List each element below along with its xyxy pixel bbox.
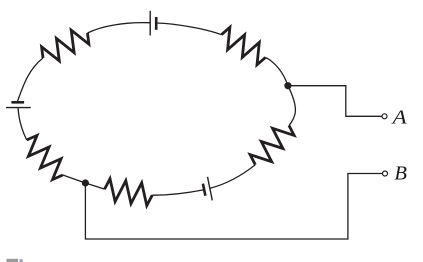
node B (junction dot) (82, 179, 89, 186)
resistor upper-left (42, 30, 89, 61)
wire lower-right resistor to bottom battery (211, 165, 256, 188)
battery left: short plate (11, 101, 24, 104)
wire top-left arc (88, 23, 150, 33)
svg-text:B: B (394, 163, 407, 184)
resistor bottom (105, 179, 153, 206)
wire top-right arc (157, 23, 222, 35)
terminal A open circle (382, 114, 387, 119)
figure caption fragment (cut off) (7, 259, 19, 262)
svg-text:A: A (390, 107, 406, 128)
wire node B to terminal B (85, 174, 382, 240)
wire lower-left resistor to left battery (18, 108, 27, 140)
terminal B open circle (383, 171, 388, 176)
battery top: long plate (149, 11, 151, 36)
wire bottom battery to bottom resistor (152, 190, 203, 195)
wire upper-right to node A (266, 57, 288, 85)
resistor lower-right (250, 125, 294, 164)
wire left battery to upper-left resistor (18, 58, 44, 101)
battery top: short plate (155, 17, 158, 30)
resistor upper-right (221, 27, 265, 65)
node A (junction dot) (284, 82, 291, 89)
resistor lower-left (27, 135, 63, 179)
wire bottom resistor to node B (85, 183, 104, 189)
battery bottom: short plate (203, 184, 206, 196)
wire node A to terminal A (288, 86, 382, 117)
battery left: long plate (6, 107, 31, 109)
wire node A to lower-right resistor (288, 86, 296, 126)
wire node B to lower-left resistor (63, 175, 86, 183)
battery bottom: long plate (208, 177, 213, 201)
